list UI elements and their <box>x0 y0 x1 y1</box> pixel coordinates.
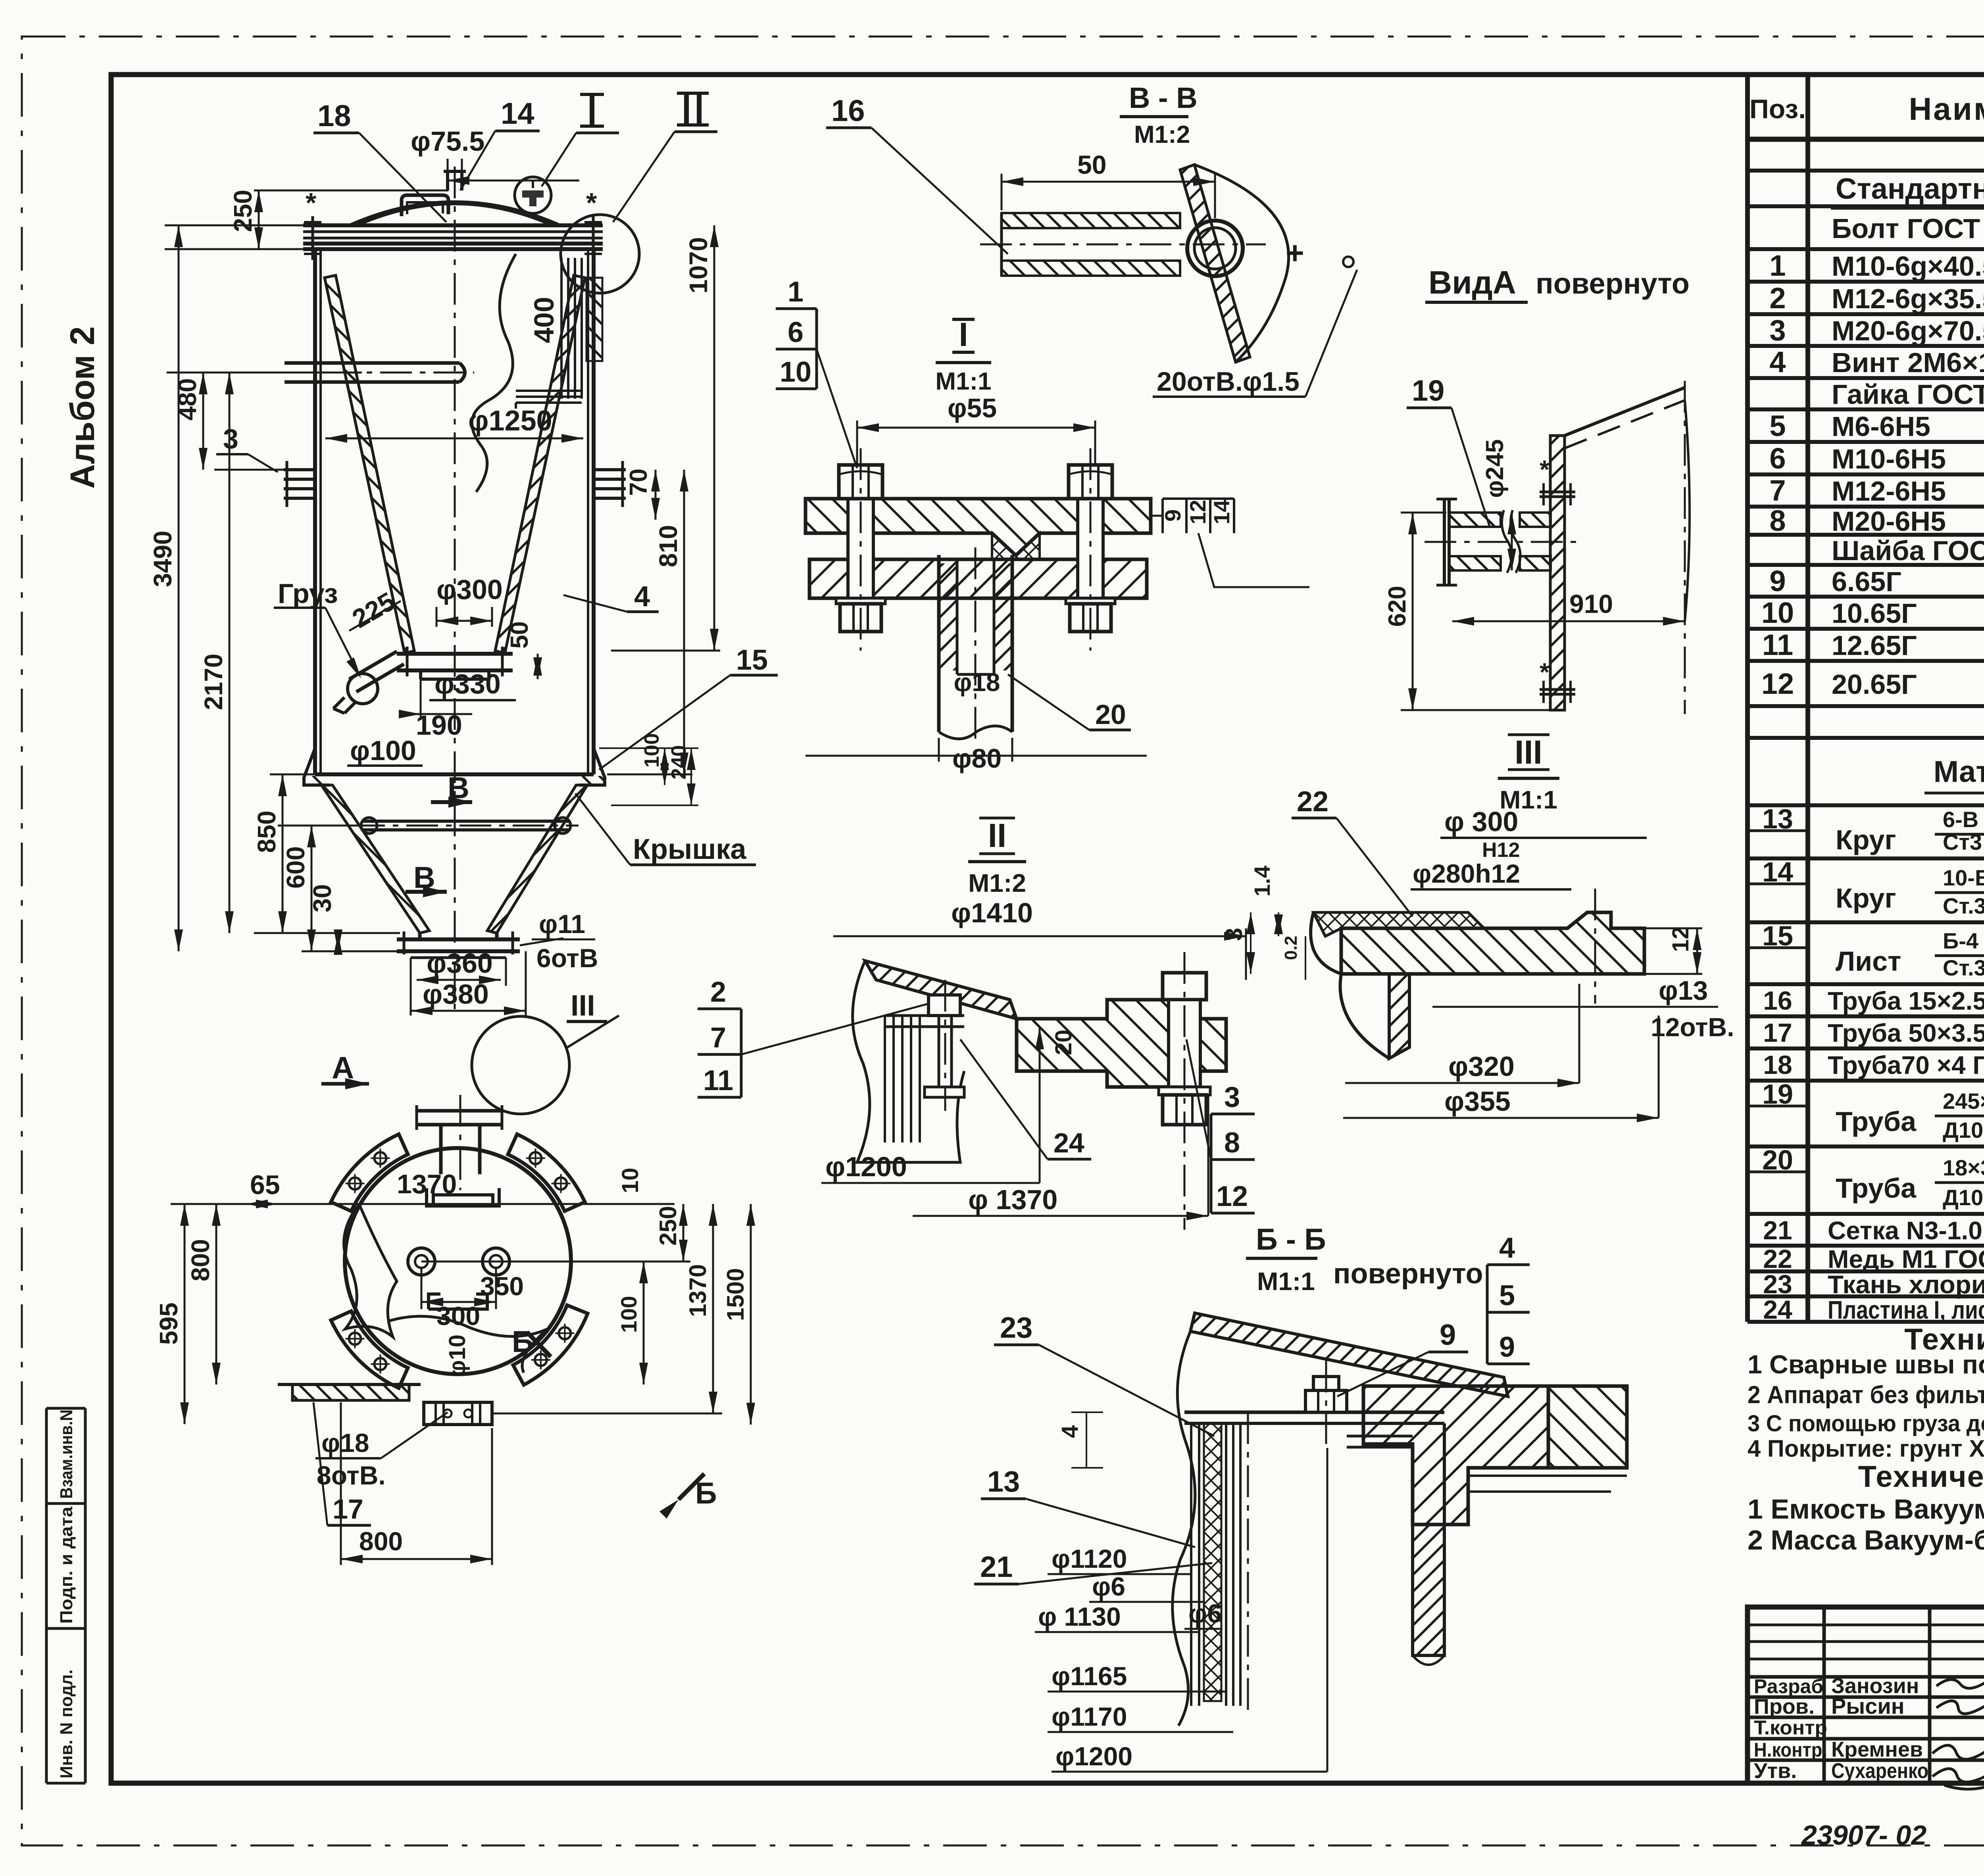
svg-text:1.4: 1.4 <box>1250 866 1275 897</box>
svg-text:*: * <box>1540 455 1550 484</box>
svg-text:18×3 ГОСТ 8734-75: 18×3 ГОСТ 8734-75 <box>1943 1155 1984 1180</box>
svg-text:10: 10 <box>1761 596 1794 629</box>
svg-text:Техническая характеристика: Техническая характеристика <box>1858 1460 1984 1494</box>
svg-text:Труба: Труба <box>1836 1173 1917 1204</box>
svg-text:1 Сварные швы по ГОСТ 5264-80: 1 Сварные швы по ГОСТ 5264-80 <box>1748 1350 1984 1379</box>
svg-text:φ75.5: φ75.5 <box>411 126 484 157</box>
svg-text:18: 18 <box>1763 1050 1792 1079</box>
svg-text:φ1170: φ1170 <box>1052 1702 1127 1731</box>
svg-text:III: III <box>571 989 595 1022</box>
svg-text:Сухаренко: Сухаренко <box>1831 1759 1928 1783</box>
svg-text:23: 23 <box>1000 1311 1032 1344</box>
svg-text:Б: Б <box>512 1325 534 1359</box>
svg-text:М12-6g×35.58: М12-6g×35.58 <box>1832 283 1984 314</box>
svg-text:4 Покрытие: грунт ХС-010 ГОСТ: 4 Покрытие: грунт ХС-010 ГОСТ 9355-81, э… <box>1748 1435 1984 1462</box>
svg-text:240: 240 <box>667 745 690 780</box>
svg-text:6.65Г: 6.65Г <box>1832 566 1901 597</box>
svg-text:повернуто: повернуто <box>1333 1258 1483 1290</box>
svg-text:14: 14 <box>1209 500 1234 524</box>
svg-text:19: 19 <box>1762 1079 1793 1110</box>
svg-text:Подп. и дата: Подп. и дата <box>57 1506 76 1624</box>
svg-text:20: 20 <box>1762 1144 1793 1175</box>
svg-text:Рысин: Рысин <box>1831 1694 1905 1719</box>
svg-text:65: 65 <box>250 1170 280 1200</box>
svg-text:11: 11 <box>703 1065 733 1096</box>
svg-text:12отВ.: 12отВ. <box>1651 1012 1734 1042</box>
svg-text:Поз.: Поз. <box>1749 94 1806 124</box>
svg-text:9: 9 <box>1499 1331 1515 1363</box>
svg-text:*: * <box>1540 658 1550 686</box>
svg-text:φ280h12: φ280h12 <box>1413 859 1520 888</box>
svg-text:12: 12 <box>1668 926 1694 952</box>
svg-text:7: 7 <box>1769 474 1786 507</box>
svg-text:250: 250 <box>655 1206 681 1246</box>
svg-text:16: 16 <box>831 94 865 128</box>
svg-text:М10-6g×40.58: М10-6g×40.58 <box>1832 251 1984 282</box>
svg-text:+: + <box>1286 235 1304 271</box>
svg-text:Инв. N подл.: Инв. N подл. <box>57 1669 76 1778</box>
svg-text:III: III <box>1515 734 1542 771</box>
svg-text:φ6: φ6 <box>1092 1572 1125 1601</box>
svg-text:12.65Г: 12.65Г <box>1832 630 1917 661</box>
svg-text:φ 1130: φ 1130 <box>1038 1602 1121 1631</box>
svg-text:10.65Г: 10.65Г <box>1832 598 1917 629</box>
svg-text:3 С помощью груза добиться, ч: 3 С помощью груза добиться, чтобы крышка… <box>1748 1411 1984 1436</box>
svg-text:3: 3 <box>1769 314 1786 347</box>
svg-text:Ткань хлориновая артикул 86 00: Ткань хлориновая артикул 86 001 <box>1828 1270 1984 1299</box>
svg-text:8: 8 <box>1769 504 1786 537</box>
svg-text:245×7 ГОСТ 8732-78: 245×7 ГОСТ 8732-78 <box>1943 1089 1984 1114</box>
svg-text:2 Масса Вакуум-бункера, кг -: 2 Масса Вакуум-бункера, кг - 840 <box>1748 1525 1984 1555</box>
svg-text:595: 595 <box>154 1302 183 1345</box>
svg-text:Ст.3сп. ГОСТ 535-79: Ст.3сп. ГОСТ 535-79 <box>1943 893 1984 918</box>
svg-text:6-В ГОСТ 2590-71: 6-В ГОСТ 2590-71 <box>1943 807 1984 832</box>
svg-text:Ст.3 ГОСТ 14637-79: Ст.3 ГОСТ 14637-79 <box>1943 955 1984 980</box>
svg-text:15: 15 <box>1762 920 1793 951</box>
svg-text:12: 12 <box>1216 1181 1248 1212</box>
svg-text:350: 350 <box>480 1271 524 1301</box>
svg-text:φ18: φ18 <box>954 668 1000 697</box>
svg-text:Винт 2М6×16.58 ГОСТ 17475-80: Винт 2М6×16.58 ГОСТ 17475-80 <box>1832 347 1984 378</box>
svg-text:Труба 50×3.5 ГОСТ 3262-75: Труба 50×3.5 ГОСТ 3262-75 <box>1828 1019 1984 1047</box>
svg-text:Пров.: Пров. <box>1754 1695 1815 1719</box>
svg-text:φ1120: φ1120 <box>1052 1544 1127 1573</box>
svg-text:Н.контр.: Н.контр. <box>1754 1739 1827 1761</box>
svg-text:20: 20 <box>1095 699 1126 730</box>
svg-text:М1:2: М1:2 <box>1134 121 1190 148</box>
svg-text:21: 21 <box>980 1550 1013 1583</box>
svg-text:190: 190 <box>416 710 462 741</box>
svg-text:18: 18 <box>317 99 351 133</box>
svg-text:14: 14 <box>501 97 534 131</box>
svg-text:Труба70 ×4 ГОСТ 3262-75: Труба70 ×4 ГОСТ 3262-75 <box>1828 1051 1984 1079</box>
svg-text:1: 1 <box>1769 249 1786 282</box>
svg-text:М20-6g×70.58: М20-6g×70.58 <box>1832 315 1984 346</box>
svg-text:4: 4 <box>634 581 650 613</box>
svg-text:15: 15 <box>736 644 768 676</box>
svg-text:24: 24 <box>1054 1127 1084 1158</box>
svg-text:10: 10 <box>617 1167 643 1193</box>
svg-text:13: 13 <box>1762 803 1793 834</box>
svg-text:10: 10 <box>780 356 811 388</box>
svg-text:6отВ: 6отВ <box>536 943 598 973</box>
svg-text:Кремнев: Кремнев <box>1831 1738 1923 1761</box>
svg-text:φ360: φ360 <box>427 948 493 979</box>
svg-text:М1:1: М1:1 <box>935 368 991 395</box>
svg-text:16: 16 <box>1763 986 1792 1015</box>
svg-text:Крышка: Крышка <box>633 833 746 865</box>
svg-text:11: 11 <box>1762 628 1793 661</box>
svg-text:17: 17 <box>333 1494 363 1525</box>
svg-text:0.2: 0.2 <box>1281 936 1301 960</box>
svg-text:9: 9 <box>1160 509 1185 522</box>
svg-text:Альбом 2: Альбом 2 <box>63 326 102 489</box>
svg-text:20отВ.φ1.5: 20отВ.φ1.5 <box>1157 367 1300 397</box>
svg-text:800: 800 <box>186 1239 215 1281</box>
svg-text:I: I <box>959 316 968 353</box>
svg-text:620: 620 <box>1384 586 1411 627</box>
svg-text:2: 2 <box>1769 282 1786 315</box>
svg-text:Труба: Труба <box>1836 1106 1917 1137</box>
svg-text:Шайба ГОСТ 6402-70: Шайба ГОСТ 6402-70 <box>1832 535 1984 566</box>
svg-text:910: 910 <box>1569 589 1613 618</box>
svg-text:φ1200: φ1200 <box>825 1151 907 1182</box>
svg-text:810: 810 <box>654 525 682 567</box>
svg-text:Труба 15×2.5 ГОСТ 3262-75: Труба 15×2.5 ГОСТ 3262-75 <box>1828 987 1984 1015</box>
svg-text:2170: 2170 <box>199 654 228 710</box>
svg-text:Стандартные изделия: Стандартные изделия <box>1836 172 1984 205</box>
svg-text:19: 19 <box>1412 374 1444 407</box>
svg-text:6: 6 <box>788 317 804 348</box>
svg-text:М10-6Н5: М10-6Н5 <box>1832 444 1946 474</box>
svg-text:1500: 1500 <box>722 1268 749 1321</box>
svg-text:5: 5 <box>1499 1280 1515 1311</box>
svg-text:φ320: φ320 <box>1448 1051 1515 1082</box>
svg-text:3: 3 <box>1224 1081 1240 1113</box>
svg-text:II: II <box>988 817 1007 854</box>
svg-text:14: 14 <box>1762 856 1793 887</box>
svg-text:6: 6 <box>1769 442 1786 475</box>
svg-text:12: 12 <box>1761 667 1794 700</box>
svg-text:М12-6Н5: М12-6Н5 <box>1832 476 1946 507</box>
svg-text:Б - Б: Б - Б <box>1256 1223 1326 1256</box>
svg-text:Наименование: Наименование <box>1909 91 1984 127</box>
svg-text:4: 4 <box>1769 346 1786 378</box>
svg-text:800: 800 <box>359 1527 403 1556</box>
svg-text:Разраб: Разраб <box>1754 1675 1823 1697</box>
svg-text:φ355: φ355 <box>1444 1086 1511 1117</box>
svg-text:400: 400 <box>529 297 559 343</box>
svg-text:Круг: Круг <box>1836 824 1896 855</box>
svg-text:М1:1: М1:1 <box>1257 1267 1315 1296</box>
svg-text:3490: 3490 <box>148 531 177 587</box>
svg-text:Круг: Круг <box>1836 883 1896 914</box>
svg-text:Д10 ГОСТ 8733-74: Д10 ГОСТ 8733-74 <box>1943 1185 1984 1210</box>
svg-text:Б-4 ГОСТ 19903-74: Б-4 ГОСТ 19903-74 <box>1943 928 1984 953</box>
svg-text:1370: 1370 <box>397 1169 457 1199</box>
svg-text:φ380: φ380 <box>423 979 489 1010</box>
svg-text:7: 7 <box>710 1022 726 1054</box>
svg-text:Т.контр: Т.контр <box>1754 1717 1827 1739</box>
svg-text:φ13: φ13 <box>1659 975 1708 1006</box>
svg-text:φ6: φ6 <box>1188 1599 1222 1628</box>
svg-text:φ80: φ80 <box>952 743 1002 774</box>
svg-text:Лист: Лист <box>1836 946 1901 977</box>
svg-text:φ1410: φ1410 <box>951 897 1033 928</box>
svg-text:Н12: Н12 <box>1482 839 1520 862</box>
svg-text:20: 20 <box>1051 1029 1077 1055</box>
svg-text:70: 70 <box>625 469 652 496</box>
svg-text:φ330: φ330 <box>434 668 501 699</box>
svg-text:50: 50 <box>1077 150 1106 179</box>
svg-text:4: 4 <box>1057 1425 1083 1438</box>
svg-text:13: 13 <box>987 1465 1020 1498</box>
svg-text:φ10: φ10 <box>444 1335 470 1377</box>
svg-text:10-В ГОСТ 2590-71: 10-В ГОСТ 2590-71 <box>1943 865 1984 890</box>
svg-text:300: 300 <box>436 1301 480 1331</box>
svg-text:3: 3 <box>223 423 238 454</box>
svg-text:Ст3 сп ГОСТ 535-79: Ст3 сп ГОСТ 535-79 <box>1943 830 1984 854</box>
svg-text:50: 50 <box>506 621 533 649</box>
svg-text:600: 600 <box>281 846 310 889</box>
svg-text:М20-6Н5: М20-6Н5 <box>1832 506 1946 537</box>
svg-text:φ 300: φ 300 <box>1444 806 1518 837</box>
svg-text:8: 8 <box>1224 1127 1240 1159</box>
svg-text:Груз: Груз <box>278 578 338 609</box>
svg-text:φ245: φ245 <box>1481 439 1509 498</box>
svg-text:8отВ.: 8отВ. <box>317 1461 386 1490</box>
svg-text:2 Аппарат без фильтра испытат: 2 Аппарат без фильтра испытать гидравлич… <box>1748 1381 1984 1409</box>
svg-text:М6-6Н5: М6-6Н5 <box>1832 411 1930 442</box>
svg-text:17: 17 <box>1763 1018 1792 1047</box>
svg-text:φ1200: φ1200 <box>1055 1742 1132 1771</box>
svg-text:φ1165: φ1165 <box>1052 1661 1127 1691</box>
svg-text:Пластина I, лист ТМКЩ-М-3 ГОСТ: Пластина I, лист ТМКЩ-М-3 ГОСТ 7338-77 <box>1828 1296 1984 1324</box>
svg-text:φ300: φ300 <box>436 574 503 605</box>
svg-text:Утв.: Утв. <box>1754 1759 1797 1783</box>
svg-text:Медь М1 ГОСТ 859-78: Медь М1 ГОСТ 859-78 <box>1828 1245 1984 1273</box>
svg-text:Болт ГОСТ 7798-70: Болт ГОСТ 7798-70 <box>1832 213 1984 244</box>
svg-text:Сетка N3-1.0 ГОСТ 5336-80: Сетка N3-1.0 ГОСТ 5336-80 <box>1828 1216 1984 1245</box>
svg-text:φ 1370: φ 1370 <box>968 1184 1057 1215</box>
svg-text:30: 30 <box>308 884 336 912</box>
svg-text:В - В: В - В <box>1129 81 1198 114</box>
svg-text:φ55: φ55 <box>948 393 997 423</box>
svg-text:100: 100 <box>616 1296 641 1333</box>
svg-text:12: 12 <box>1185 500 1210 524</box>
svg-text:Гайка ГОСТ 5915-70: Гайка ГОСТ 5915-70 <box>1832 379 1984 410</box>
svg-text:9: 9 <box>1440 1318 1456 1351</box>
svg-text:22: 22 <box>1763 1244 1792 1273</box>
svg-text:φ100: φ100 <box>350 735 416 766</box>
svg-text:1: 1 <box>788 276 804 308</box>
svg-text:Материалы: Материалы <box>1934 755 1984 789</box>
svg-text:20.65Г: 20.65Г <box>1832 669 1917 700</box>
svg-text:М1:2: М1:2 <box>968 869 1026 897</box>
svg-text:850: 850 <box>252 810 281 853</box>
svg-text:повернуто: повернуто <box>1536 267 1690 300</box>
svg-text:Д10 ГОСТ 8731-74: Д10 ГОСТ 8731-74 <box>1943 1118 1984 1142</box>
svg-text:21: 21 <box>1763 1215 1792 1245</box>
svg-text:1 Емкость Вакуум-бункер, л -: 1 Емкость Вакуум-бункер, л - 1000 <box>1748 1494 1984 1525</box>
svg-text:φ11: φ11 <box>539 909 585 939</box>
svg-text:22: 22 <box>1297 786 1328 818</box>
svg-text:φ1250: φ1250 <box>468 405 552 437</box>
svg-text:9: 9 <box>1769 565 1786 597</box>
svg-text:4: 4 <box>1499 1232 1515 1264</box>
svg-text:23: 23 <box>1763 1269 1792 1299</box>
svg-text:3: 3 <box>1221 928 1247 941</box>
svg-text:1070: 1070 <box>684 237 713 294</box>
svg-text:2: 2 <box>710 976 726 1008</box>
svg-text:5: 5 <box>1769 409 1786 442</box>
svg-text:ВидА: ВидА <box>1428 265 1516 301</box>
svg-text:Взам.инв.N: Взам.инв.N <box>57 1409 76 1499</box>
svg-text:24: 24 <box>1763 1295 1792 1324</box>
svg-text:23907- 02: 23907- 02 <box>1801 1820 1926 1851</box>
svg-text:φ18: φ18 <box>321 1428 369 1457</box>
svg-text:1370: 1370 <box>684 1264 711 1317</box>
svg-text:*: * <box>306 187 317 218</box>
svg-text:480: 480 <box>173 378 202 421</box>
